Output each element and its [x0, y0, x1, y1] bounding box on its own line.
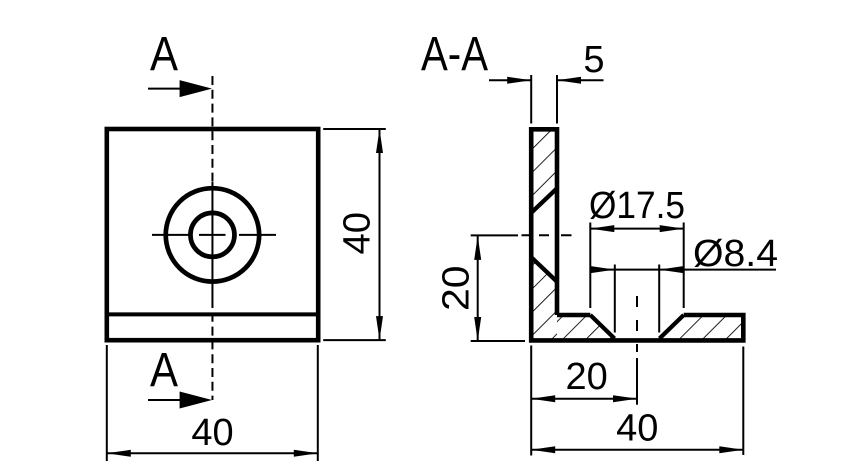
plate outline 40x40 (top view) — [107, 129, 318, 340]
hole vertical center line (solid through circles) — [211, 182, 213, 299]
flange top edge (left of countersink) — [557, 313, 590, 318]
hole circle D8.4 — [190, 213, 234, 257]
svg-text:20: 20 — [435, 266, 477, 312]
svg-text:Ø17.5: Ø17.5 — [589, 185, 685, 227]
section arrow top (view direction) — [148, 80, 212, 97]
dimension 40 (right side of left view) — [323, 129, 386, 340]
section arrow bottom (view direction) — [148, 392, 212, 409]
svg-text:A: A — [150, 344, 178, 397]
svg-text:40: 40 — [336, 212, 378, 255]
section cutting line A-A (upper dashed part) — [211, 76, 213, 182]
counterbore circle D17.5 — [166, 188, 259, 281]
svg-text:A: A — [150, 28, 178, 81]
dimension 5 (leg thickness) — [489, 75, 604, 124]
dimension 40 (bottom of left view) — [107, 345, 318, 461]
section cutting line A-A (lower dashed part) — [211, 299, 213, 400]
svg-text:40: 40 — [616, 408, 658, 450]
L-profile outline (section) — [531, 129, 743, 340]
hatch bottom flange — [557, 315, 743, 340]
center line extension to 20-dimension — [636, 358, 638, 405]
countersink cone right edge (flange hole) — [660, 315, 684, 339]
svg-text:A-A: A-A — [421, 28, 488, 81]
dimension 40 (bottom of section) — [531, 346, 743, 456]
flange edge line (visible edge of vertical leg) — [109, 312, 316, 316]
countersink cone upper edge (leg hole) — [531, 188, 557, 213]
svg-text:Ø8.4: Ø8.4 — [693, 233, 778, 275]
svg-text:5: 5 — [583, 39, 604, 81]
dimension D8.4 (through hole) — [591, 265, 776, 333]
dimension 20 (hole position, bottom of section) — [531, 395, 637, 402]
svg-text:20: 20 — [566, 356, 608, 398]
horizontal center line of hole — [152, 234, 277, 236]
countersink cone lower edge (leg hole) — [531, 257, 557, 282]
dimension D17.5 (countersink) — [590, 223, 683, 309]
countersink cone left edge (flange hole) — [590, 315, 614, 339]
dimension 20 (hole height, left of section) — [471, 235, 525, 341]
leg hole horizontal center line (dashes) — [522, 234, 572, 236]
hatch vertical leg — [531, 129, 557, 340]
flange hole vertical center line — [636, 296, 638, 352]
svg-text:40: 40 — [191, 412, 233, 454]
